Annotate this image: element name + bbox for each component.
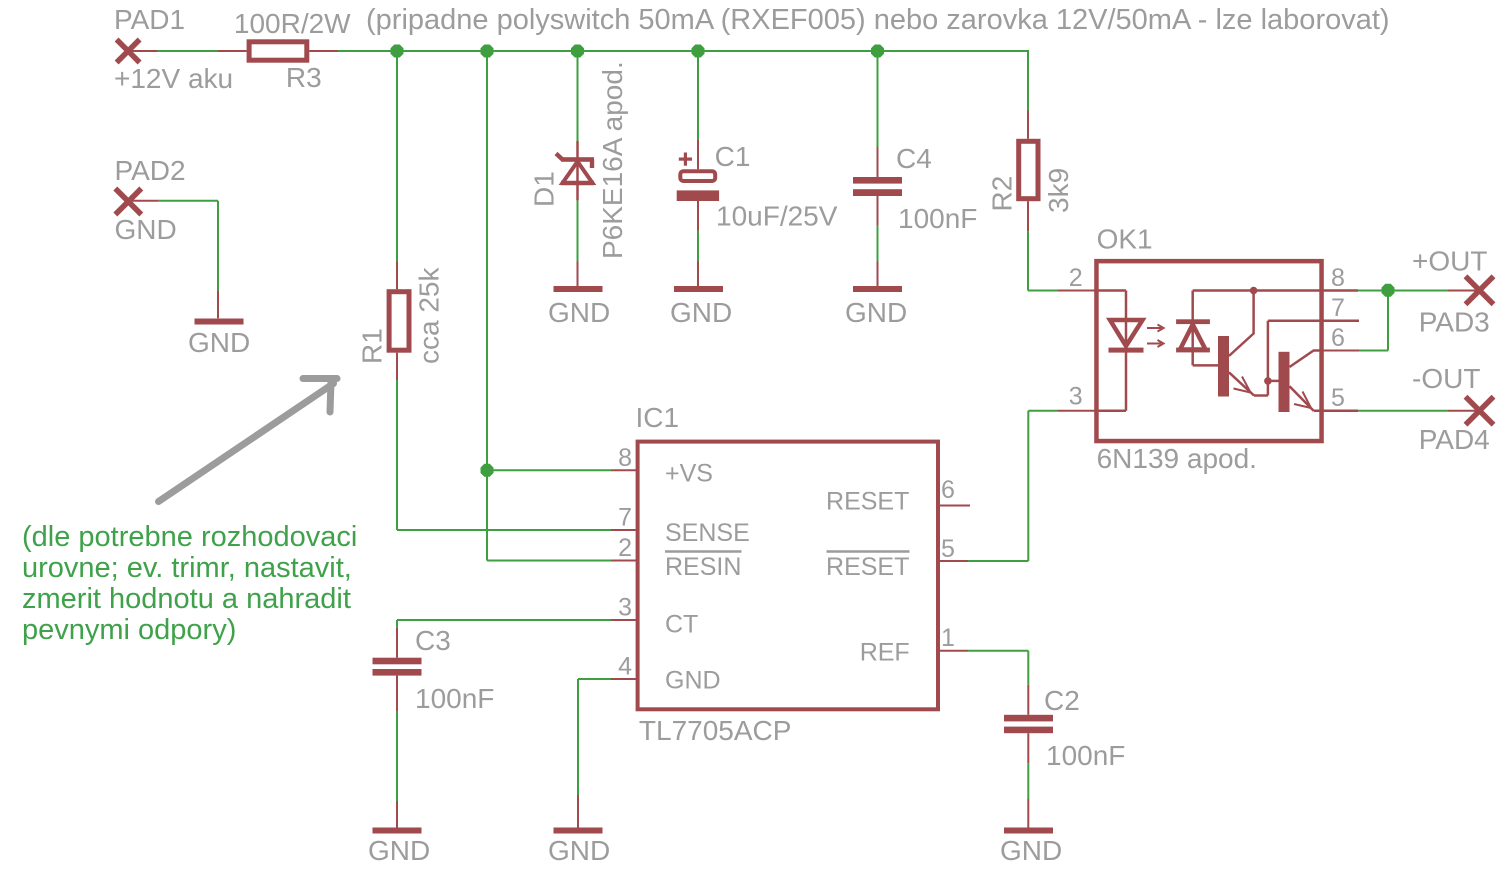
ground symbol under C3 xyxy=(373,828,422,834)
svg-text:1: 1 xyxy=(941,624,955,652)
transistor Q2 base bar xyxy=(1279,352,1290,412)
svg-text:100R/2W: 100R/2W xyxy=(234,8,351,39)
svg-text:7: 7 xyxy=(1331,294,1345,322)
svg-text:R2: R2 xyxy=(987,176,1018,212)
transistor Q1 emitter arrowhead xyxy=(1234,377,1251,393)
svg-text:PAD4: PAD4 xyxy=(1419,424,1490,455)
wire R2 bottom down xyxy=(1027,231,1029,290)
svg-text:100nF: 100nF xyxy=(1046,740,1125,771)
junction on rail at R1 column xyxy=(391,45,404,58)
junction on rail at C1 column xyxy=(692,45,705,58)
wire OK1 top rail to pin 8 xyxy=(1193,289,1358,292)
capacitor C4 xyxy=(853,177,902,196)
wire down to C4 xyxy=(877,51,879,147)
wire OK1 pin 8 to PAD3 xyxy=(1358,290,1448,292)
svg-text:pevnymi odpory): pevnymi odpory) xyxy=(22,614,236,646)
svg-text:GND: GND xyxy=(548,835,610,866)
pin wire R1 top pin xyxy=(396,262,398,290)
svg-text:cca 25k: cca 25k xyxy=(414,267,445,364)
pin wire C3 top pin xyxy=(396,628,398,658)
svg-text:CT: CT xyxy=(665,611,698,639)
pin wire C4 GND stub xyxy=(877,262,879,287)
ground symbol under C2 xyxy=(1004,828,1053,834)
svg-text:4: 4 xyxy=(618,653,632,681)
pin wire OK1 pin 3 stub xyxy=(1058,410,1095,412)
svg-text:RESET: RESET xyxy=(826,488,909,516)
ground symbol under D1 xyxy=(554,286,603,292)
svg-text:3: 3 xyxy=(1069,383,1083,411)
svg-text:C4: C4 xyxy=(896,143,932,174)
svg-text:TL7705ACP: TL7705ACP xyxy=(639,715,792,746)
pad PAD2 xyxy=(115,189,141,215)
svg-text:-OUT: -OUT xyxy=(1412,363,1480,394)
pin wire R3 left pin xyxy=(218,50,247,52)
svg-text:PAD2: PAD2 xyxy=(115,155,186,186)
OK1 light arrow 2 xyxy=(1147,340,1164,347)
svg-text:R1: R1 xyxy=(357,328,388,364)
svg-text:PAD1: PAD1 xyxy=(114,4,185,35)
wire down to C1 xyxy=(697,51,699,139)
junction at PAD3 / pin 6 xyxy=(1382,284,1395,297)
wire R1 to IC1 pin 7 SENSE xyxy=(397,529,611,531)
svg-text:3k9: 3k9 xyxy=(1043,168,1074,213)
node internal junction at Q1 collector xyxy=(1250,287,1258,295)
svg-text:2: 2 xyxy=(1069,264,1083,292)
wire pin 4 down to GND xyxy=(577,679,579,795)
wire Q1 emitter xyxy=(1229,372,1254,395)
svg-text:6: 6 xyxy=(1331,324,1345,352)
wire OK1 pin 2 internal xyxy=(1096,289,1126,292)
svg-text:GND: GND xyxy=(670,297,732,328)
wire R1 bottom down xyxy=(396,380,398,530)
svg-text:6: 6 xyxy=(941,476,955,504)
pin wire C2 bottom pin xyxy=(1027,733,1029,763)
OK1 internal circuit xyxy=(1096,291,1359,411)
capacitor C1 polarized xyxy=(677,153,719,202)
wire junction down to pin 6 level xyxy=(1387,291,1389,351)
svg-text:urovne; ev. trimr, nastavit,: urovne; ev. trimr, nastavit, xyxy=(22,552,352,584)
wire to OK1 pin 6 xyxy=(1359,350,1388,352)
pin wire OK1 pin 6 stub xyxy=(1322,350,1359,352)
wire down to D1 xyxy=(577,51,579,141)
svg-text:8: 8 xyxy=(1331,264,1345,292)
pin wire C4 bottom pin xyxy=(877,196,879,225)
pin wire R2 bottom pin xyxy=(1027,201,1029,231)
pin wire C2 GND stub xyxy=(1027,799,1029,828)
pin wire R2 top pin xyxy=(1027,111,1029,139)
pin wire IC1 pin 2 stub xyxy=(611,560,639,562)
wire Q1 collector xyxy=(1229,291,1254,357)
wire to IC1 pin 8 xyxy=(487,469,611,471)
svg-text:GND: GND xyxy=(548,297,610,328)
svg-text:C3: C3 xyxy=(415,625,451,656)
pin wire PAD2 stub xyxy=(128,200,158,202)
pin wire R1 bottom pin xyxy=(396,353,398,380)
svg-text:RESIN: RESIN xyxy=(665,553,741,581)
pin wire OK1 pin 2 stub xyxy=(1058,290,1095,292)
pin wire C1 bottom pin xyxy=(697,201,699,231)
wire PAD2 corner down to GND xyxy=(217,201,219,291)
diode D1 zener xyxy=(556,154,594,184)
svg-text:P6KE16A apod.: P6KE16A apod. xyxy=(597,61,628,259)
svg-text:IC1: IC1 xyxy=(636,402,680,433)
svg-text:GND: GND xyxy=(1000,835,1062,866)
wire IC1 pin 4 GND left xyxy=(578,678,611,680)
svg-text:+12V aku: +12V aku xyxy=(114,63,233,94)
svg-text:GND: GND xyxy=(115,214,177,245)
svg-text:5: 5 xyxy=(941,535,955,563)
pin wire PAD1 stub xyxy=(128,50,158,52)
pad PAD4 xyxy=(1466,397,1494,425)
wire to IC1 pin 5 RESET xyxy=(968,560,1028,562)
wire to IC1 pin 2 RESIN xyxy=(487,560,611,562)
svg-text:D1: D1 xyxy=(529,171,560,207)
wire Q2 base xyxy=(1268,380,1279,383)
wire Q2 emitter xyxy=(1290,386,1314,411)
OK1 light arrow 1 xyxy=(1147,325,1164,332)
wire C1 to GND xyxy=(697,231,699,262)
svg-text:+VS: +VS xyxy=(665,460,713,488)
svg-text:2: 2 xyxy=(618,534,632,562)
capacitor C3 xyxy=(373,658,422,676)
pin wire C1 GND stub xyxy=(697,262,699,287)
svg-text:OK1: OK1 xyxy=(1097,224,1153,255)
pin wire IC1 pin 1 stub xyxy=(938,650,968,652)
resistor R3 xyxy=(249,42,307,60)
wire pin 7 vertical xyxy=(1267,321,1270,396)
OK1 LED triangle xyxy=(1110,320,1143,346)
pin wire D1 GND stub xyxy=(577,262,579,287)
wire photodiode to Q1 base xyxy=(1193,364,1218,367)
svg-text:(dle potrebne rozhodovaci: (dle potrebne rozhodovaci xyxy=(22,521,357,553)
pin wire OK1 pin 5 internal xyxy=(1314,409,1359,412)
wire IC1 pin 3 CT to C3 xyxy=(397,619,611,621)
wire net +12V main rail xyxy=(338,50,1028,52)
pin wire PAD4 stub xyxy=(1448,410,1480,412)
pin wire C4 top pin xyxy=(877,147,879,177)
wire C2 bottom to GND xyxy=(1027,763,1029,799)
transistor Q1 base bar xyxy=(1218,336,1229,397)
pin wire C3 bottom pin xyxy=(396,676,398,712)
pin wire IC1 pin 8 stub xyxy=(611,469,639,471)
svg-text:100nF: 100nF xyxy=(898,203,977,234)
svg-text:PAD3: PAD3 xyxy=(1419,306,1490,337)
svg-text:SENSE: SENSE xyxy=(665,519,750,547)
wire OK1 pin 3 internal xyxy=(1096,409,1126,412)
capacitor C2 xyxy=(1004,715,1053,733)
resistor R2 xyxy=(1019,141,1038,198)
OK1 LED cathode bar xyxy=(1109,348,1144,353)
wire photodiode vertical xyxy=(1191,291,1194,366)
svg-text:100nF: 100nF xyxy=(415,683,494,714)
svg-text:zmerit hodnotu a nahradit: zmerit hodnotu a nahradit xyxy=(22,583,351,615)
wire net +12V rail PAD1 to R3 xyxy=(158,50,219,52)
svg-text:10uF/25V: 10uF/25V xyxy=(716,201,838,232)
svg-text:GND: GND xyxy=(188,327,250,358)
wire Q1 emitter to pin7 node xyxy=(1254,394,1268,397)
wire OK1 pin 3 down to IC1 pin 5 xyxy=(1027,411,1029,561)
pin wire IC1 pin 7 stub xyxy=(611,529,639,531)
pin wire C2 top pin xyxy=(1027,685,1029,715)
op-amp U1 OK1 box 6N139 xyxy=(1096,261,1321,441)
svg-text:GND: GND xyxy=(665,666,721,694)
wire corner down to C3 xyxy=(396,620,398,628)
annotation arrow pointing to R1 xyxy=(159,379,338,502)
pin wire C3 GND stub xyxy=(396,801,398,828)
pin wire IC1 pin 4 stub xyxy=(611,678,639,680)
svg-text:+OUT: +OUT xyxy=(1412,245,1487,276)
junction on rail at D1 column xyxy=(571,45,584,58)
svg-text:7: 7 xyxy=(618,504,632,532)
pin wire R3 right pin xyxy=(309,50,338,52)
wire IC1 pin 1 REF right xyxy=(968,650,1028,652)
svg-text:GND: GND xyxy=(368,835,430,866)
svg-text:8: 8 xyxy=(618,444,632,472)
wire Q2 collector xyxy=(1290,351,1323,368)
pin wire PAD3 stub xyxy=(1448,290,1480,292)
svg-text:GND: GND xyxy=(845,297,907,328)
wire PAD2 to corner xyxy=(159,200,218,202)
overline RESIN xyxy=(665,550,742,553)
pin wire IC1 pin 3 stub xyxy=(611,619,639,621)
svg-text:C1: C1 xyxy=(715,141,751,172)
wire C4 to GND xyxy=(877,225,879,262)
resistor R1 xyxy=(389,292,409,351)
junction on rail at +VS column xyxy=(481,45,494,58)
wire down to IC1 +VS column xyxy=(486,51,488,561)
wire R2 to OK1 pin 2 xyxy=(1028,290,1058,292)
junction on rail at C4 column xyxy=(871,45,884,58)
pin wire IC1 pin 5 stub xyxy=(938,560,968,562)
svg-text:3: 3 xyxy=(618,594,632,622)
svg-text:RESET: RESET xyxy=(826,553,909,581)
wire OK1 LED vertical xyxy=(1125,291,1128,411)
ground symbol under IC1 pin 4 xyxy=(554,828,603,834)
svg-text:(pripadne polyswitch 50mA (RXE: (pripadne polyswitch 50mA (RXEF005) nebo… xyxy=(366,4,1390,36)
pin wire C1 top pin xyxy=(697,139,699,169)
pin wire PAD2 GND stub xyxy=(217,291,219,319)
svg-text:R3: R3 xyxy=(286,62,322,93)
pin wire D1 through line xyxy=(576,141,579,200)
ground symbol under PAD2 xyxy=(195,319,244,325)
wire OK1 pin 5 to PAD4 xyxy=(1358,410,1448,412)
wire down to R1 top xyxy=(396,51,398,262)
wire rail corner down to R2 xyxy=(1027,50,1029,111)
overline RESET pin5 xyxy=(827,550,910,553)
junction at IC1 pin 8 wire xyxy=(481,464,494,477)
OK1 photodiode triangle xyxy=(1180,325,1206,350)
svg-text:6N139 apod.: 6N139 apod. xyxy=(1097,443,1257,474)
wire C3 bottom to GND xyxy=(396,711,398,801)
node internal junction at Q2 base xyxy=(1264,377,1272,385)
wire down to C2 xyxy=(1027,651,1029,685)
svg-text:5: 5 xyxy=(1331,384,1345,412)
OK1 photodiode cathode bar xyxy=(1176,319,1210,324)
svg-text:C2: C2 xyxy=(1044,685,1080,716)
pin wire OK1 pin 7 stub xyxy=(1268,319,1359,322)
ground symbol under C1 xyxy=(674,286,723,292)
transistor Q2 emitter arrowhead xyxy=(1294,392,1311,409)
svg-text:REF: REF xyxy=(860,638,910,666)
pin wire IC1 pin4 GND stub xyxy=(577,795,579,828)
IC1 box TL7705ACP xyxy=(638,442,938,710)
wire D1 to GND xyxy=(577,200,579,261)
wire OK1 pin 3 left xyxy=(1028,410,1058,412)
pad PAD1 xyxy=(117,40,140,63)
pad PAD3 xyxy=(1466,276,1494,304)
ground symbol under C4 xyxy=(853,286,902,292)
pin wire IC1 pin 6 stub xyxy=(937,505,970,507)
